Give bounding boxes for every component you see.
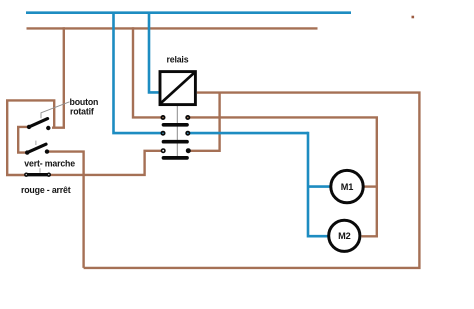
wire brown left loop S1-right to S3-left	[7, 100, 54, 175]
wire brown bracket S1-left to S2-left	[18, 127, 28, 153]
svg-text:M2: M2	[338, 231, 350, 241]
svg-text:bouton: bouton	[70, 97, 99, 107]
contact pole 2 terminals	[161, 131, 166, 136]
relay actuator line	[176, 106, 178, 158]
wire blue row2 right to motor riser	[189, 132, 308, 135]
wire brown relay output right loop bottom return	[84, 93, 420, 268]
wire brown row1 right to motor M1 M2 right side	[190, 117, 377, 236]
wire brown tap to contact row3 right	[190, 93, 220, 151]
label pointer line	[41, 102, 70, 119]
wire blue motor riser	[308, 132, 328, 236]
svg-text:relais: relais	[167, 55, 189, 65]
switch S1 terminals	[27, 125, 31, 129]
contact pole 1 bar	[164, 123, 188, 127]
svg-text:vert- marche: vert- marche	[24, 159, 75, 169]
relay diagonal	[160, 72, 194, 103]
svg-text:M1: M1	[341, 182, 353, 192]
svg-text:rotatif: rotatif	[70, 107, 94, 117]
stray dot	[412, 16, 415, 19]
wire blue branch to M1	[308, 185, 330, 188]
brown supply bus	[27, 27, 318, 29]
wire blue drop to contact row2 left	[114, 12, 162, 134]
switch S3 closed bar	[26, 173, 49, 176]
switch S2 vert-marche tick	[35, 141, 37, 145]
contact pole 3 bar	[164, 156, 188, 160]
wire blue relay coil feed	[149, 12, 159, 93]
svg-text:rouge - arrêt: rouge - arrêt	[21, 185, 71, 195]
contact pole 2 bar	[164, 140, 188, 144]
blue supply bus	[26, 11, 351, 14]
wire brown bus drop to contact row1 left	[133, 27, 162, 117]
motor M2	[329, 220, 360, 251]
switch S3 terminals	[24, 173, 28, 177]
motor M1	[331, 170, 363, 202]
switch S2 lever	[27, 144, 46, 152]
contact pole 1 terminals	[161, 115, 166, 120]
switch S1 bouton rotatif lever	[29, 119, 48, 127]
wire brown branch to M1 right	[365, 185, 377, 187]
relay coil box U1	[160, 72, 195, 105]
wire brown bus drop to S1 right	[52, 27, 64, 128]
wire brown S3 right to contact row3 left	[49, 151, 162, 175]
contact pole 3 terminals	[161, 148, 166, 153]
wire brown S2 right long drop	[48, 152, 84, 268]
switch S3 rouge-arret tick	[39, 168, 41, 173]
switch S2 terminals	[25, 150, 29, 154]
